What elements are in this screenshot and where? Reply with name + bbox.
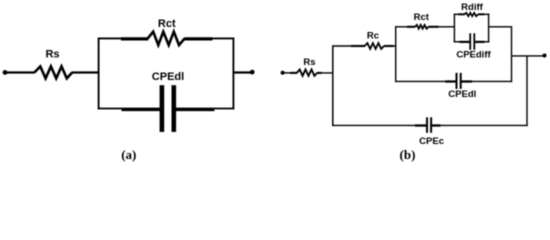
svg-text:Rs: Rs	[45, 49, 59, 61]
svg-text:Rct: Rct	[158, 18, 176, 30]
svg-text:CPEdl: CPEdl	[152, 71, 184, 83]
svg-text:(a): (a)	[121, 147, 136, 162]
svg-text:CPEc: CPEc	[419, 136, 444, 147]
svg-text:Rct: Rct	[414, 12, 430, 23]
svg-text:CPEdl: CPEdl	[448, 89, 476, 100]
svg-text:Rs: Rs	[303, 57, 315, 68]
svg-text:Rc: Rc	[367, 30, 379, 41]
svg-text:CPEdiff: CPEdiff	[456, 50, 491, 61]
svg-text:Rdiff: Rdiff	[461, 2, 483, 13]
svg-text:(b): (b)	[400, 147, 416, 162]
